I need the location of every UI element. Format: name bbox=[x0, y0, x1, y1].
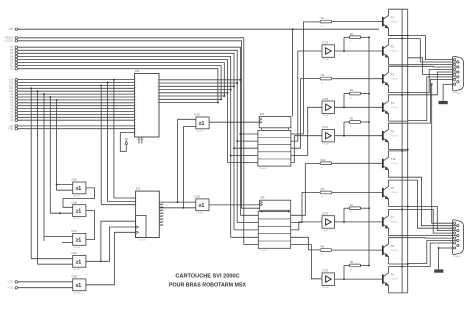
svg-text:1k: 1k bbox=[350, 97, 352, 99]
svg-text:2N3055: 2N3055 bbox=[391, 21, 399, 23]
svg-text:74LS32: 74LS32 bbox=[196, 130, 204, 132]
svg-text:T8: T8 bbox=[391, 244, 395, 248]
svg-text:GND: GND bbox=[8, 129, 13, 131]
svg-text:74LS07: 74LS07 bbox=[322, 230, 330, 232]
svg-text:74LS32: 74LS32 bbox=[73, 292, 81, 294]
svg-text:T2: T2 bbox=[391, 45, 395, 49]
svg-text:IC7A: IC7A bbox=[322, 41, 328, 45]
svg-text:1k: 1k bbox=[321, 167, 323, 169]
svg-text:A12: A12 bbox=[9, 84, 14, 87]
svg-text:R1: R1 bbox=[321, 16, 325, 20]
svg-text:T3: T3 bbox=[391, 72, 395, 76]
svg-text:T7: T7 bbox=[391, 216, 395, 220]
svg-text:IC1C: IC1C bbox=[71, 229, 77, 233]
svg-text:~WR: ~WR bbox=[8, 29, 14, 31]
svg-text:IC1B: IC1B bbox=[71, 200, 77, 204]
svg-text:74LS32: 74LS32 bbox=[196, 212, 204, 214]
svg-text:74LS07: 74LS07 bbox=[322, 59, 330, 61]
svg-text:IC5: IC5 bbox=[260, 112, 265, 116]
svg-text:T9: T9 bbox=[391, 273, 395, 277]
svg-text:74LS07: 74LS07 bbox=[322, 115, 330, 117]
svg-text:A10: A10 bbox=[9, 90, 14, 93]
svg-text:2N3055: 2N3055 bbox=[391, 279, 399, 281]
svg-text:≥1: ≥1 bbox=[199, 203, 205, 209]
svg-text:CONN-D9: CONN-D9 bbox=[452, 256, 461, 258]
svg-text:IC8: IC8 bbox=[135, 69, 140, 73]
svg-text:≥1: ≥1 bbox=[76, 283, 82, 289]
svg-text:≥1: ≥1 bbox=[76, 237, 82, 243]
svg-text:CARTOUCHE SVI 2000C: CARTOUCHE SVI 2000C bbox=[175, 273, 239, 279]
svg-text:T5: T5 bbox=[391, 129, 395, 133]
svg-text:IC7D: IC7D bbox=[322, 269, 328, 273]
svg-text:R2: R2 bbox=[350, 32, 354, 36]
svg-text:IC7C: IC7C bbox=[322, 125, 328, 129]
svg-text:R8: R8 bbox=[321, 245, 325, 249]
svg-text:74LS07: 74LS07 bbox=[322, 287, 330, 289]
svg-text:74LS240: 74LS240 bbox=[259, 168, 268, 170]
svg-text:1k: 1k bbox=[350, 212, 352, 214]
svg-text:T6: T6 bbox=[391, 186, 395, 190]
svg-text:A13: A13 bbox=[9, 81, 14, 84]
svg-text:~RESET: ~RESET bbox=[4, 38, 14, 40]
svg-text:2N3055: 2N3055 bbox=[391, 78, 399, 80]
svg-text:IC7B: IC7B bbox=[322, 97, 328, 101]
svg-text:74LS32: 74LS32 bbox=[73, 218, 81, 220]
svg-text:POUR BRAS ROBOTARM MSX: POUR BRAS ROBOTARM MSX bbox=[169, 283, 246, 289]
svg-text:R4: R4 bbox=[350, 88, 354, 92]
svg-text:1k: 1k bbox=[321, 254, 323, 256]
svg-text:T10: T10 bbox=[391, 157, 396, 161]
svg-text:≥1: ≥1 bbox=[76, 259, 82, 265]
svg-text:74LS245: 74LS245 bbox=[136, 139, 145, 141]
svg-text:74LS07: 74LS07 bbox=[322, 144, 330, 146]
svg-text:IC2A: IC2A bbox=[71, 251, 77, 255]
svg-text:1k: 1k bbox=[321, 82, 323, 84]
svg-text:74LS273: 74LS273 bbox=[138, 240, 147, 242]
svg-text:R9: R9 bbox=[350, 260, 354, 264]
svg-text:≥1: ≥1 bbox=[76, 209, 82, 215]
svg-text:IC1A: IC1A bbox=[71, 178, 77, 182]
svg-text:R7: R7 bbox=[350, 203, 354, 207]
svg-text:R10: R10 bbox=[321, 158, 326, 162]
svg-text:IC3: IC3 bbox=[136, 186, 141, 190]
svg-text:2N3055: 2N3055 bbox=[391, 135, 399, 137]
svg-text:IC4: IC4 bbox=[260, 196, 265, 200]
svg-text:R6: R6 bbox=[321, 187, 325, 191]
svg-text:74LS32: 74LS32 bbox=[73, 195, 81, 197]
svg-text:74LS32: 74LS32 bbox=[73, 247, 81, 249]
svg-text:+5V: +5V bbox=[9, 126, 14, 128]
svg-text:2N3055: 2N3055 bbox=[391, 51, 399, 53]
svg-text:IC2B: IC2B bbox=[71, 275, 77, 279]
svg-text:2N3055: 2N3055 bbox=[391, 107, 399, 109]
svg-text:2N3055: 2N3055 bbox=[391, 192, 399, 194]
svg-text:74LS240: 74LS240 bbox=[259, 250, 268, 252]
svg-text:CONN-D9: CONN-D9 bbox=[452, 93, 461, 95]
svg-text:T1: T1 bbox=[391, 15, 395, 19]
svg-text:2N3055: 2N3055 bbox=[391, 250, 399, 252]
svg-text:≥1: ≥1 bbox=[199, 121, 205, 127]
svg-text:R5: R5 bbox=[350, 117, 354, 121]
svg-text:1k: 1k bbox=[321, 25, 323, 27]
svg-text:1k: 1k bbox=[321, 196, 323, 198]
svg-text:2N3055: 2N3055 bbox=[391, 222, 399, 224]
svg-text:1k: 1k bbox=[350, 126, 352, 128]
svg-text:~CS2: ~CS2 bbox=[7, 288, 14, 290]
svg-text:≥1: ≥1 bbox=[76, 186, 82, 192]
svg-text:IC2D: IC2D bbox=[194, 195, 200, 199]
svg-text:1k: 1k bbox=[350, 41, 352, 43]
svg-text:R3: R3 bbox=[321, 73, 325, 77]
svg-text:74LS32: 74LS32 bbox=[73, 269, 81, 271]
svg-text:IC7E: IC7E bbox=[322, 212, 328, 216]
svg-text:~CLOCK: ~CLOCK bbox=[4, 41, 14, 43]
svg-text:T4: T4 bbox=[391, 101, 395, 105]
svg-text:~CS1: ~CS1 bbox=[7, 282, 14, 284]
svg-text:A14: A14 bbox=[9, 79, 14, 82]
svg-text:2N3055: 2N3055 bbox=[391, 163, 399, 165]
svg-text:1k: 1k bbox=[350, 269, 352, 271]
svg-text:IC2C: IC2C bbox=[194, 113, 200, 117]
